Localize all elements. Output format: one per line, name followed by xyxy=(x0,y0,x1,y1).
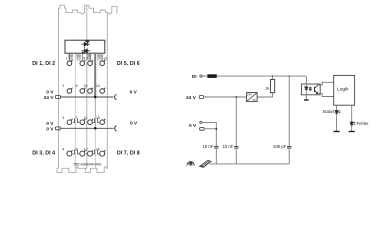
svg-text:1k: 1k xyxy=(265,85,269,90)
svg-text:10 nF: 10 nF xyxy=(203,144,214,149)
row D terminal numbers 4,8,12,16 xyxy=(62,148,99,152)
svg-text:DI 1, DI 2: DI 1, DI 2 xyxy=(32,61,55,67)
svg-text:0 V: 0 V xyxy=(46,89,54,95)
svg-text:DI 3, DI 4: DI 3, DI 4 xyxy=(32,150,55,156)
earth contact icon xyxy=(187,162,195,166)
row C terminal numbers 3,7,11,15 xyxy=(62,116,99,120)
chevron to adjacent module (0V) xyxy=(115,126,117,131)
module right edge xyxy=(106,13,108,169)
capacitor C2 10nF wire xyxy=(235,97,237,146)
wire opto collector to Logik (jog up) xyxy=(318,82,334,85)
svg-text:Logik: Logik xyxy=(337,86,349,92)
svg-text:DI 5, DI 6: DI 5, DI 6 xyxy=(117,61,140,67)
junction dot 330pF xyxy=(289,75,290,76)
0V terminal plug xyxy=(200,127,204,130)
capacitor C3 330pF wire xyxy=(288,76,290,146)
24V bus wire xyxy=(60,96,113,98)
svg-text:0 V: 0 V xyxy=(46,121,54,127)
svg-text:2: 2 xyxy=(62,84,64,88)
module top profile xyxy=(59,5,117,16)
capacitor C1 10nF xyxy=(214,146,218,148)
0V wires to 10nF line xyxy=(202,122,216,146)
jumper contacts row C xyxy=(73,118,99,122)
wire DI corner down through optocoupler xyxy=(305,76,307,87)
24V plug terminal xyxy=(56,96,61,99)
row A terminal circles DI1 DI5 DI2 DI6 xyxy=(67,60,105,66)
module middle separator xyxy=(86,5,88,168)
junction dot 24V/10nF xyxy=(235,96,237,98)
ground terminator bar xyxy=(304,99,309,101)
module left edge xyxy=(58,8,60,168)
svg-text:Status: Status xyxy=(323,109,335,114)
svg-text:24 V: 24 V xyxy=(44,95,55,101)
compartment separator left half xyxy=(74,53,76,168)
row A terminal numbers 1,5,9,13 xyxy=(66,57,107,61)
svg-text:0 V: 0 V xyxy=(46,126,54,132)
svg-text:DI: DI xyxy=(192,74,197,80)
svg-text:4: 4 xyxy=(62,148,64,152)
row C terminal circles xyxy=(67,119,105,125)
input resistor (filled) xyxy=(207,74,216,78)
svg-text:Fehler: Fehler xyxy=(357,121,369,126)
svg-text:750-430/040-000: 750-430/040-000 xyxy=(73,161,102,166)
LED D2 (lower, pointing left) xyxy=(82,44,90,53)
Fehler LED branch xyxy=(351,105,353,131)
Fehler LED terminator bar xyxy=(349,131,355,133)
Status LED branch xyxy=(336,105,338,131)
row B terminal circles xyxy=(67,88,105,94)
svg-text:0 V: 0 V xyxy=(189,123,197,129)
wire 0V plug xyxy=(204,128,216,130)
Fehler LED xyxy=(350,122,355,125)
contact bar 2 xyxy=(76,54,80,61)
wire opto emitter to Logik (jog down) xyxy=(318,94,334,97)
Logik box xyxy=(334,75,355,105)
row D terminal circles xyxy=(67,150,106,156)
thick grey 0V wire from box to 24V bus xyxy=(94,53,96,97)
electronics box with LEDs xyxy=(65,40,105,53)
0V bus wire xyxy=(60,127,113,129)
0V plug terminal xyxy=(56,127,61,130)
DC/DC converter xyxy=(247,92,258,102)
svg-text:10 nF: 10 nF xyxy=(223,144,234,149)
optocoupler LED xyxy=(305,87,312,91)
1k bottom wire to DC/DC xyxy=(257,93,272,97)
contact bar 3 xyxy=(87,54,92,61)
optocoupler phototransistor xyxy=(314,85,317,94)
svg-text:DI 7, DI 8: DI 7, DI 8 xyxy=(117,150,140,156)
row B terminal numbers 2,6,10,14 xyxy=(62,84,99,88)
DI wire to optocoupler xyxy=(217,75,306,77)
svg-text:24 V: 24 V xyxy=(186,95,197,101)
wire DI to resistor xyxy=(202,75,207,77)
svg-text:10: 10 xyxy=(84,84,88,88)
junction dot 0V bus xyxy=(94,127,97,130)
24V plug terminal xyxy=(199,96,203,99)
Status LED xyxy=(335,111,340,114)
bottom shield rail xyxy=(210,163,290,165)
optocoupler box xyxy=(302,84,321,95)
svg-text:3: 3 xyxy=(62,116,64,120)
LED D1 (upper, pointing right) xyxy=(82,40,90,46)
compartment separator right half xyxy=(94,128,96,168)
svg-text:24V: 24V xyxy=(247,92,252,96)
svg-text:1: 1 xyxy=(66,57,68,61)
resistor 1k xyxy=(270,80,274,93)
svg-text:5V: 5V xyxy=(253,98,257,102)
chevron to adjacent module (24V) xyxy=(115,94,117,99)
svg-text:6: 6 xyxy=(76,84,78,88)
module bottom profile xyxy=(57,167,107,172)
svg-text:9: 9 xyxy=(86,57,88,61)
junction dot 24V bus / 0V wire xyxy=(94,96,97,99)
contact bar 1 xyxy=(68,54,73,61)
svg-text:0 V: 0 V xyxy=(130,121,138,127)
svg-text:14: 14 xyxy=(96,84,100,88)
opto ground wire xyxy=(305,90,307,100)
jumper contacts row D xyxy=(73,150,99,154)
DIN rail icon xyxy=(200,160,211,167)
Status LED terminator bar xyxy=(334,131,340,133)
0V terminal circle xyxy=(200,121,202,123)
thin wire from 24V bus to 0V bus xyxy=(94,97,96,128)
svg-text:0 V: 0 V xyxy=(130,90,138,96)
svg-text:330 pF: 330 pF xyxy=(273,144,286,149)
junction dot 0V xyxy=(215,128,217,130)
DI terminal circle xyxy=(200,75,202,77)
24V wire to DC/DC xyxy=(204,96,247,98)
contact bar 4 xyxy=(97,54,101,61)
1k top stub xyxy=(272,76,274,79)
row A stub wires xyxy=(69,53,102,61)
junction dot 1k xyxy=(272,75,273,76)
